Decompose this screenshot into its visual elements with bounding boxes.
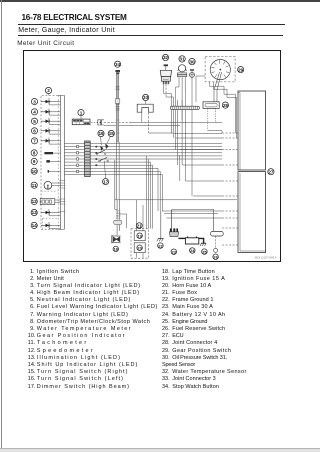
- speedometer LCD 12: [31, 198, 60, 204]
- meter cable 34: [115, 61, 121, 200]
- indicator LED 3: [31, 98, 60, 105]
- svg-text:32: 32: [163, 55, 169, 60]
- indicator LED 7: [31, 138, 60, 145]
- drawing code text: [255, 256, 277, 260]
- scan bottom band: [0, 448, 320, 450]
- svg-text:10: 10: [32, 169, 38, 174]
- switch symbols: [96, 137, 111, 179]
- rule under title: [18, 24, 285, 25]
- battery leads: [172, 210, 214, 244]
- water temperature sensor 32: [160, 54, 173, 138]
- engine ground 25: [200, 243, 207, 254]
- svg-text:MC4 11157 OM2 A: MC4 11157 OM2 A: [255, 256, 277, 260]
- svg-text:33: 33: [143, 95, 149, 100]
- svg-text:6: 6: [33, 128, 36, 133]
- ignition feed wire: [104, 122, 222, 125]
- button harness: [113, 160, 122, 235]
- turn signal switch 15 label: [108, 130, 114, 136]
- fuse box 21: [131, 200, 149, 258]
- horn fuse 20: [134, 243, 145, 258]
- svg-text:28: 28: [223, 103, 229, 108]
- legend left column: [28, 269, 158, 391]
- svg-text:27: 27: [268, 169, 274, 174]
- battery 24: [185, 236, 198, 253]
- svg-text:31: 31: [180, 57, 186, 62]
- main fuse 23: [169, 210, 178, 255]
- oil pressure switch 30: [189, 58, 195, 196]
- sensor wires to ECU: [115, 131, 237, 228]
- gear switch wires to ECU: [210, 82, 237, 138]
- svg-text:16: 16: [98, 131, 104, 136]
- water temperature meter 9: [31, 158, 60, 164]
- indicator LED 5: [31, 118, 60, 125]
- joint connector 28: [203, 102, 228, 131]
- odometer LCD 8: [31, 150, 60, 156]
- meter unit label 2: [45, 87, 51, 95]
- svg-text:7: 7: [33, 138, 36, 143]
- diagram frame: [24, 51, 281, 262]
- lap time button 18: [112, 236, 121, 252]
- meter unit 2 dashed outline: [41, 95, 64, 229]
- svg-text:29: 29: [238, 67, 244, 72]
- page title: [22, 13, 127, 22]
- circuit caption: [17, 40, 74, 47]
- svg-text:12: 12: [32, 199, 38, 204]
- svg-text:20: 20: [137, 245, 141, 250]
- scan top edge: [0, 0, 320, 2]
- svg-text:4: 4: [33, 109, 36, 114]
- ignition switch 1: [72, 110, 90, 125]
- speed sensor 31: [176, 56, 187, 181]
- svg-text:2: 2: [47, 88, 50, 93]
- legend right column: [162, 269, 247, 391]
- meter connector block: [85, 141, 91, 177]
- turn signal switch 16 label: [98, 130, 104, 136]
- ignition connector pair: [91, 120, 104, 125]
- svg-text:17: 17: [103, 179, 109, 184]
- rule under subtitle: [18, 35, 284, 36]
- meter bus rungs: [60, 181, 66, 212]
- indicator LED 6: [31, 128, 60, 135]
- gear position switch 29: [196, 57, 244, 103]
- illumination LED 13: [31, 209, 60, 216]
- svg-text:8: 8: [33, 151, 36, 156]
- main harness mesh: [90, 144, 222, 229]
- meter harness wires: [64, 144, 84, 175]
- fuel reserve switch 26: [211, 231, 224, 259]
- ECU 27: [238, 91, 274, 253]
- section subtitle: [18, 27, 115, 34]
- svg-text:21: 21: [137, 223, 142, 228]
- sensor joint connector strip: [170, 106, 199, 109]
- scan left edge: [1, 0, 2, 452]
- svg-text:1: 1: [80, 110, 83, 115]
- gear position indicator 10: [31, 168, 60, 174]
- ignition fuse 19: [134, 231, 145, 241]
- frame ground 22: [157, 211, 164, 248]
- svg-text:5: 5: [33, 119, 36, 124]
- dimmer switch 17 label: [103, 179, 109, 185]
- tachometer 11: [31, 181, 60, 191]
- svg-text:30: 30: [189, 59, 195, 64]
- svg-text:13: 13: [32, 210, 38, 215]
- shift up LED 14: [31, 218, 60, 229]
- indicator LED 4: [31, 109, 60, 116]
- ECU harness dashed leads: [222, 133, 238, 245]
- svg-text:14: 14: [32, 223, 38, 228]
- svg-text:15: 15: [109, 131, 115, 136]
- svg-text:9: 9: [33, 159, 36, 164]
- joint connector 33: [137, 94, 153, 133]
- svg-text:3: 3: [33, 99, 36, 104]
- svg-text:34: 34: [115, 62, 121, 67]
- svg-text:11: 11: [32, 183, 37, 188]
